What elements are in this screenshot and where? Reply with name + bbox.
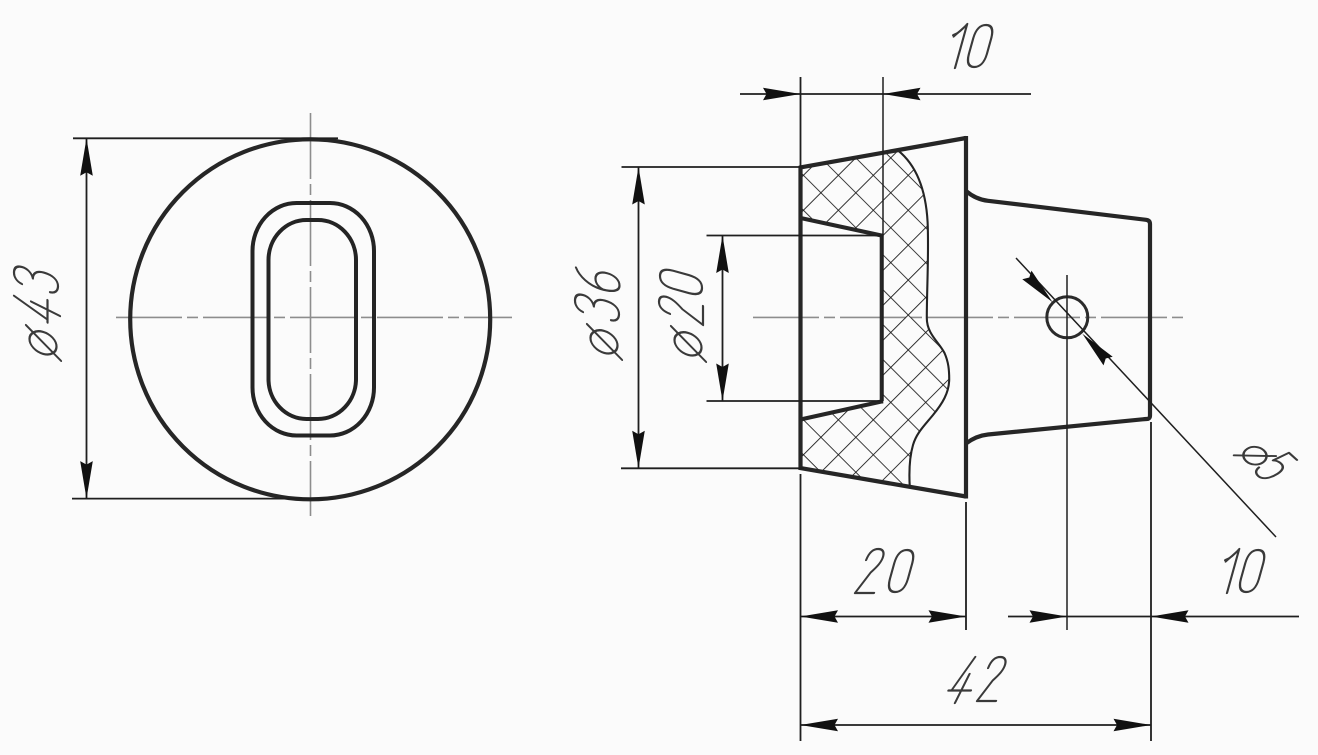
dim d20: bottom arrow (716, 364, 729, 402)
dim d20: text d20 (659, 267, 706, 362)
dim 43: bottom extension line (72, 498, 336, 500)
dim d5: text d5 (1234, 434, 1298, 483)
vertical centerline of front view (310, 113, 312, 516)
horizontal centerline of front view (116, 316, 512, 318)
dim d20: bottom extension line (707, 400, 882, 402)
dim d36: bottom extension line (621, 467, 804, 469)
dim 10 top: right arrow (883, 88, 921, 101)
dim 10 top: text 10 (944, 24, 995, 68)
cross hole vertical centerline / extension line (1066, 275, 1068, 630)
dim d36: top arrow (632, 167, 645, 205)
outer circle of knob, front view (130, 139, 490, 499)
dim 10 top: left arrow (763, 88, 801, 101)
dim d36: top extension line (622, 166, 805, 168)
dim 20 bottom: dimension line (801, 616, 967, 618)
inner obround slot edge (269, 220, 357, 419)
cavity bottom taper edge (801, 402, 882, 420)
dim 43: bottom arrow (80, 461, 93, 499)
flange right face (964, 136, 968, 499)
dim 10 bottom right: dimension line (1008, 616, 1299, 618)
cavity back wall (880, 234, 884, 404)
dim 43: text d43 (14, 264, 61, 361)
dim d5: leader line (1016, 258, 1276, 537)
dim 10 top: dimension line (740, 93, 1031, 95)
dim 10 top: right extension line (882, 77, 884, 401)
flange top edge (799, 138, 966, 168)
dim 42: right arrow (1114, 719, 1152, 732)
dim 20 bottom: left arrow (801, 610, 839, 623)
outer obround slot edge (253, 203, 375, 436)
dim 43: top arrow (80, 138, 93, 176)
dim 43: dimension line (86, 138, 88, 498)
cavity top taper edge (801, 218, 882, 236)
dim 42: dimension line (801, 724, 1152, 726)
dim 20 bottom: right extension line (965, 502, 967, 630)
inner dome profile curve (898, 150, 949, 487)
dim d5: lower arrow (1078, 329, 1113, 365)
dim d5: upper arrow (1022, 271, 1057, 307)
dim 10 bottom right: text 10 (1216, 549, 1267, 593)
dim 20 bottom: left extension line (800, 474, 802, 741)
dim 20 bottom: text 20 (855, 549, 916, 593)
dim d20: top arrow (716, 236, 729, 274)
dim d36: text d36 (575, 264, 622, 360)
dim d36: bottom arrow (632, 431, 645, 469)
cross hole circle (1047, 297, 1088, 338)
dim 43: top extension line (73, 137, 338, 139)
dim 10 bottom right: right arrow (1151, 610, 1189, 623)
dim 10 top: left extension line (800, 77, 802, 167)
dim d36: dimension line (638, 167, 640, 468)
dim 42: left arrow (801, 719, 839, 732)
dim 10 bottom right: left arrow (1030, 610, 1068, 623)
dim d20: top extension line (707, 235, 882, 237)
dim 20 bottom: right arrow (929, 610, 967, 623)
flange left face (798, 166, 802, 470)
dim d20: dimension line (722, 236, 724, 402)
horizontal centerline of section view (753, 316, 1185, 318)
handle outline with fillets (966, 191, 1150, 444)
dim 10 bottom right: right extension line (1150, 422, 1152, 741)
flange bottom edge (799, 468, 966, 497)
dim 42: text 42 (945, 657, 1008, 703)
hatched section area (C-shaped wall) (801, 150, 950, 487)
